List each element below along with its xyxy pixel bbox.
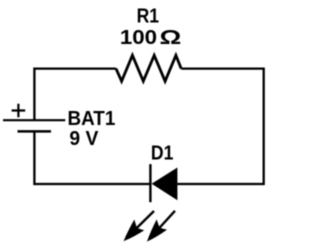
wire right vertical [263,67,265,185]
LED arrow 1 head [118,219,145,246]
svg-text:D1: D1 [151,141,174,164]
svg-text:Ω: Ω [160,26,182,49]
wire top-right segment [181,67,264,69]
battery BAT1 short plate (-) [18,130,52,133]
resistor R1 [116,55,181,81]
battery plus sign [12,104,26,118]
diode D1 cathode bar [149,164,151,202]
wire left vertical upper (top corner to battery) [33,67,35,120]
LED arrow 1 shaft [136,211,154,229]
svg-text:9 V: 9 V [69,127,98,150]
battery BAT1 long plate (+) [3,119,65,121]
svg-text:100: 100 [120,26,157,49]
svg-text:R1: R1 [137,4,160,27]
LED arrow 2 shaft [158,211,175,229]
wire top-left segment [34,67,116,69]
wire left vertical lower (battery to bottom corner) [33,131,35,185]
LED arrow 2 head [141,219,167,246]
wire bottom-left segment [34,183,150,185]
wire bottom-right segment [177,183,263,185]
diode D1 triangle [152,168,178,201]
